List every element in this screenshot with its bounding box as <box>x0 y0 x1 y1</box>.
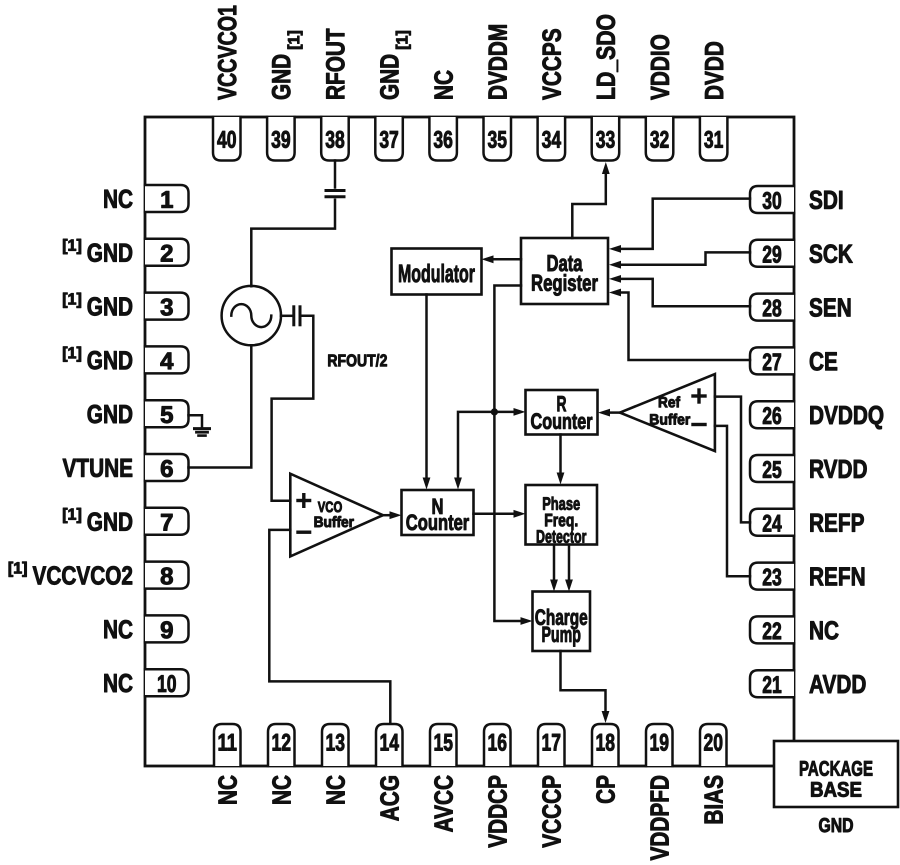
svg-text:39: 39 <box>271 127 291 153</box>
svg-text:17: 17 <box>542 730 562 756</box>
svg-text:[1]: [1] <box>62 345 82 362</box>
svg-text:Counter: Counter <box>531 410 593 434</box>
svg-text:Modulator: Modulator <box>398 261 475 288</box>
svg-text:14: 14 <box>380 730 400 756</box>
svg-text:13: 13 <box>326 730 346 756</box>
svg-text:9: 9 <box>160 617 173 644</box>
svg-text:7: 7 <box>160 509 173 536</box>
svg-text:19: 19 <box>650 730 670 756</box>
svg-text:VDDCP: VDDCP <box>483 775 512 848</box>
svg-text:PACKAGE: PACKAGE <box>799 756 873 780</box>
svg-text:VDDIO: VDDIO <box>646 34 675 100</box>
svg-text:31: 31 <box>704 127 724 153</box>
svg-text:VCCVCO1: VCCVCO1 <box>212 5 241 100</box>
svg-text:GND: GND <box>267 54 296 100</box>
svg-text:[1]: [1] <box>62 291 82 308</box>
svg-text:12: 12 <box>272 730 292 756</box>
svg-text:GND: GND <box>375 54 404 100</box>
svg-text:NC: NC <box>267 775 296 805</box>
svg-text:BASE: BASE <box>810 779 862 802</box>
svg-text:30: 30 <box>762 188 782 214</box>
svg-text:GND: GND <box>87 238 133 267</box>
svg-text:VCO: VCO <box>318 498 342 515</box>
svg-text:DVDD: DVDD <box>700 41 729 100</box>
svg-text:ACG: ACG <box>375 775 404 821</box>
svg-text:11: 11 <box>217 729 237 756</box>
svg-text:4: 4 <box>160 348 174 375</box>
svg-text:GND: GND <box>87 507 133 536</box>
svg-text:DVDDQ: DVDDQ <box>809 401 884 430</box>
svg-text:Register: Register <box>531 271 598 296</box>
svg-text:NC: NC <box>321 775 350 805</box>
svg-text:[1]: [1] <box>62 238 82 255</box>
svg-text:NC: NC <box>103 669 133 698</box>
svg-text:NC: NC <box>213 775 242 805</box>
svg-text:18: 18 <box>596 730 616 756</box>
svg-text:SEN: SEN <box>809 293 852 322</box>
svg-text:36: 36 <box>433 127 453 153</box>
svg-text:Pump: Pump <box>541 622 581 647</box>
svg-text:Counter: Counter <box>406 511 470 536</box>
svg-text:REFP: REFP <box>809 508 864 537</box>
svg-text:GND: GND <box>87 400 133 429</box>
svg-text:3: 3 <box>160 294 173 321</box>
svg-text:32: 32 <box>650 127 670 153</box>
svg-text:27: 27 <box>762 350 782 376</box>
svg-text:DVDDM: DVDDM <box>483 24 512 100</box>
svg-text:CP: CP <box>591 775 620 804</box>
svg-text:VDDPFD: VDDPFD <box>645 775 674 860</box>
svg-text:SDI: SDI <box>809 186 844 215</box>
svg-text:Buffer: Buffer <box>649 412 690 429</box>
svg-text:6: 6 <box>160 456 173 483</box>
svg-text:40: 40 <box>217 127 237 153</box>
svg-text:10: 10 <box>157 671 177 697</box>
svg-text:GND: GND <box>87 346 133 375</box>
svg-text:34: 34 <box>542 127 562 153</box>
svg-text:SCK: SCK <box>809 239 853 268</box>
svg-text:RFOUT: RFOUT <box>321 28 350 100</box>
svg-text:AVDD: AVDD <box>809 670 866 699</box>
svg-text:VCCPS: VCCPS <box>537 28 566 100</box>
svg-text:23: 23 <box>762 565 782 591</box>
svg-text:[1]: [1] <box>394 30 411 50</box>
svg-text:28: 28 <box>762 296 782 322</box>
svg-text:Ref: Ref <box>658 395 680 412</box>
svg-text:VCCCP: VCCCP <box>537 775 566 848</box>
svg-text:[1]: [1] <box>286 30 303 50</box>
svg-text:[1]: [1] <box>62 507 82 524</box>
svg-text:NC: NC <box>103 185 133 214</box>
svg-text:VCCVCO2: VCCVCO2 <box>32 561 133 590</box>
svg-text:GND: GND <box>818 814 853 836</box>
svg-text:RVDD: RVDD <box>809 455 868 484</box>
svg-text:29: 29 <box>762 242 782 268</box>
svg-text:37: 37 <box>379 127 399 153</box>
svg-text:VTUNE: VTUNE <box>63 454 133 483</box>
svg-text:NC: NC <box>103 615 133 644</box>
svg-text:AVCC: AVCC <box>429 775 458 832</box>
svg-text:21: 21 <box>762 672 782 698</box>
svg-text:RFOUT/2: RFOUT/2 <box>327 352 387 371</box>
svg-text:GND: GND <box>87 292 133 321</box>
svg-text:20: 20 <box>704 730 724 756</box>
svg-text:CE: CE <box>809 347 838 376</box>
svg-text:2: 2 <box>160 240 173 267</box>
svg-text:Buffer: Buffer <box>314 514 355 531</box>
svg-text:16: 16 <box>488 730 508 756</box>
svg-text:26: 26 <box>762 403 782 429</box>
svg-text:22: 22 <box>762 619 782 645</box>
svg-text:15: 15 <box>434 730 454 756</box>
svg-text:5: 5 <box>160 402 173 429</box>
svg-text:33: 33 <box>596 127 616 153</box>
svg-text:38: 38 <box>325 127 345 153</box>
svg-text:REFN: REFN <box>809 562 866 591</box>
svg-text:8: 8 <box>160 563 173 590</box>
svg-text:[1]: [1] <box>8 560 28 577</box>
svg-text:BIAS: BIAS <box>699 775 728 825</box>
svg-text:LD_SDO: LD_SDO <box>593 14 622 100</box>
svg-text:Detector: Detector <box>536 527 587 547</box>
svg-text:35: 35 <box>488 127 508 153</box>
svg-text:24: 24 <box>762 511 782 537</box>
svg-text:25: 25 <box>762 457 782 483</box>
svg-text:NC: NC <box>429 70 458 100</box>
svg-text:NC: NC <box>809 616 839 645</box>
svg-text:1: 1 <box>160 187 173 214</box>
